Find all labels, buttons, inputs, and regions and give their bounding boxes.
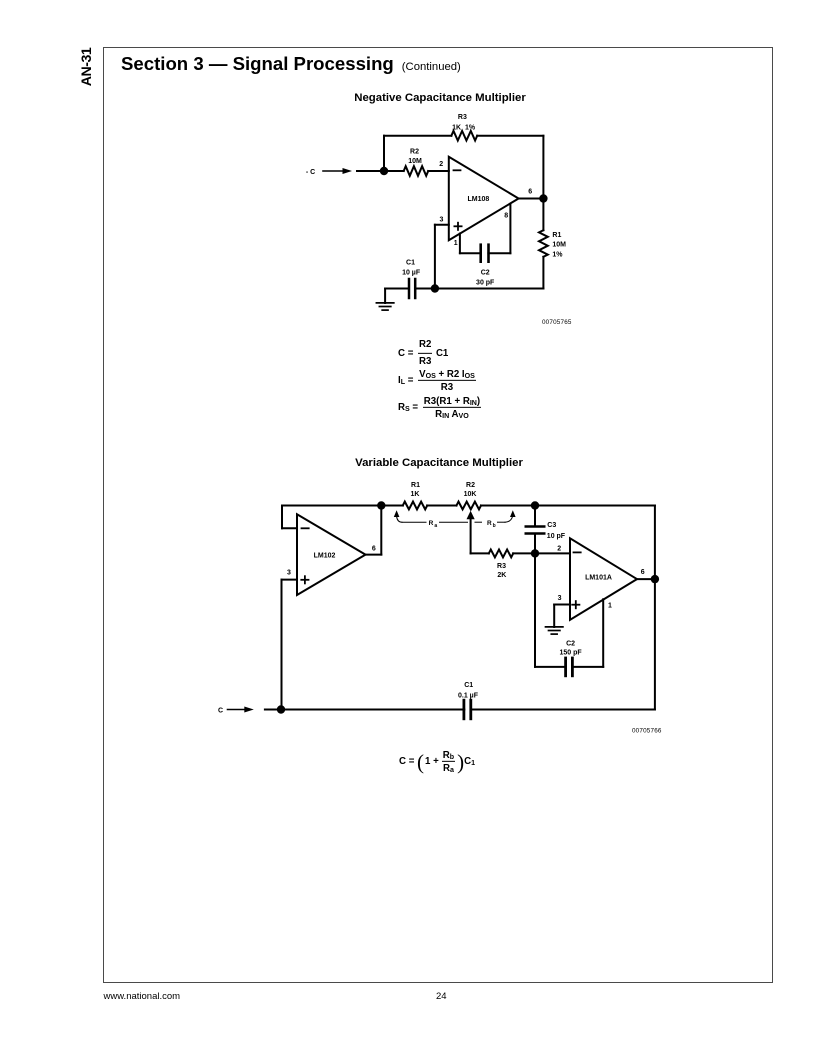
ground (circuit 1) — [376, 302, 393, 304]
svg-text:C: C — [218, 708, 223, 715]
svg-text:a: a — [434, 523, 437, 529]
op-amp plus sign (LM101A) — [572, 604, 579, 606]
wire: pin 1 down from LM101A — [602, 599, 604, 667]
capacitor C3 10pF — [534, 506, 536, 526]
svg-text:1%: 1% — [552, 252, 563, 259]
svg-text:3: 3 — [440, 217, 444, 224]
wire: C2 left to pin2-node rail — [535, 666, 566, 668]
svg-text:C3: C3 — [547, 522, 556, 529]
svg-text:6: 6 — [528, 189, 532, 196]
svg-text:00705765: 00705765 — [542, 319, 572, 326]
wire: R2 to op-amp pin 2 — [428, 170, 449, 172]
title: Variable Capacitance Multiplier — [355, 457, 523, 469]
wire: LM102 feedback stub from minus input — [282, 527, 297, 529]
wire: pin 1 to C2 — [460, 252, 481, 254]
wire: R3 to pin 2 node — [513, 552, 535, 554]
equation: IL = (VOS + R2 IOS)/R3 — [398, 368, 478, 392]
svg-text:R1: R1 — [552, 232, 561, 239]
wire: bottom rail — [435, 288, 544, 290]
svg-text:C1: C1 — [464, 682, 473, 689]
wire: left input rail up to pin 3 — [281, 580, 283, 710]
wire: input to bottom rail — [265, 709, 281, 711]
wire: LM102 feedback up to top rail — [281, 506, 283, 529]
wire: top rail feedback segment — [282, 505, 381, 507]
svg-text:3: 3 — [287, 570, 291, 577]
wire: pin 3 stub — [435, 224, 449, 226]
svg-text:30 pF: 30 pF — [476, 280, 495, 287]
wire: C1 to ground corner — [385, 288, 409, 290]
equation: C = (1 + Rb/Ra)C1 — [399, 749, 475, 773]
node: pin 2 junction dot — [531, 549, 539, 557]
op-amp U3 LM101A — [570, 538, 637, 620]
capacitor C1 10uF — [416, 288, 435, 290]
annotation Rb dimension line — [475, 521, 482, 523]
svg-text:R: R — [487, 520, 492, 527]
resistor R1 1K (circuit 2) — [403, 502, 427, 510]
wire: input arrow (circuit 1) — [323, 170, 344, 172]
ground (circuit 2) — [546, 626, 563, 628]
svg-text:R2: R2 — [410, 149, 419, 156]
svg-text:3: 3 — [558, 595, 562, 602]
svg-text:10 pF: 10 pF — [547, 533, 566, 540]
node: bottom junction dot — [431, 284, 439, 292]
svg-text:R3: R3 — [497, 563, 506, 570]
wire: pin 1 down from op-amp — [459, 234, 461, 254]
svg-text:LM101A: LM101A — [585, 574, 612, 581]
resistor R2 10M — [404, 166, 429, 176]
sidebar label AN-31 — [79, 44, 95, 90]
resistor R1 10M 1% — [542, 199, 544, 231]
svg-text:R: R — [429, 520, 434, 527]
annotation Rb curved arrow — [498, 521, 506, 523]
svg-text:10 µF: 10 µF — [402, 270, 421, 277]
wire: feedback rail down to output node — [542, 136, 544, 199]
svg-text:b: b — [493, 523, 496, 529]
svg-text:C2: C2 — [566, 640, 575, 647]
footer: page number — [436, 991, 447, 1002]
title: Negative Capacitance Multiplier — [354, 92, 526, 104]
node: C3 top junction dot — [531, 501, 539, 509]
wire: pin 3 stub (LM101A) — [554, 604, 570, 606]
node: input junction dot — [380, 167, 388, 175]
wire: bottom rail left of C1 — [281, 709, 464, 711]
svg-text:10M: 10M — [552, 242, 566, 249]
wire: pin2-node rail down — [534, 553, 536, 667]
svg-text:C1: C1 — [406, 259, 415, 266]
section heading — [121, 53, 461, 75]
svg-text:1K 1%: 1K 1% — [452, 125, 476, 132]
capacitor C2 30pF — [479, 245, 482, 262]
page frame border — [103, 47, 773, 983]
svg-text:R1: R1 — [411, 482, 420, 489]
op-amp minus sign (LM102) — [302, 527, 309, 529]
resistor R3 2K — [489, 550, 513, 558]
svg-text:C2: C2 — [481, 270, 490, 277]
wire: pin 2 node to LM101A — [535, 552, 570, 554]
wire: pin 3 down to ground — [553, 605, 555, 628]
wire: top rail to R1 — [381, 505, 403, 507]
wire: op-amp output to node — [519, 198, 544, 200]
svg-text:1: 1 — [454, 240, 458, 247]
equation: RS = R3(R1 + RIN)/(RIN AVO) — [398, 395, 483, 419]
svg-text:R2: R2 — [466, 482, 475, 489]
op-amp minus sign — [454, 169, 461, 171]
wire: wiper row to R3 — [471, 552, 489, 554]
potentiometer R2 10K — [457, 502, 482, 510]
wire: top feedback rail left segment — [384, 135, 451, 137]
wire: pin 3 stub (LM102) — [282, 579, 298, 581]
node: LM101A output junction dot — [651, 575, 659, 583]
svg-text:- C: - C — [306, 169, 315, 176]
footer: web address — [104, 991, 181, 1002]
capacitor C1 0.1uF — [462, 700, 465, 719]
wire: top rail to right rail — [535, 505, 655, 507]
wire: pin 3 down to bottom node — [434, 225, 436, 289]
svg-text:R3: R3 — [458, 114, 467, 121]
op-amp plus sign — [454, 225, 461, 227]
wire: input arrow (circuit 2) — [228, 709, 246, 711]
svg-text:6: 6 — [641, 569, 645, 576]
resistor R3 1K 1% — [451, 131, 477, 141]
node: output junction dot — [539, 194, 547, 202]
wire: right rail up — [654, 506, 656, 710]
node: bottom-left junction dot — [277, 705, 285, 713]
svg-text:6: 6 — [372, 546, 376, 553]
node: LM102 output junction dot — [377, 501, 385, 509]
op-amp U2 LM102 — [297, 514, 366, 595]
wire: R2 to C3 junction — [481, 505, 535, 507]
wire: junction up to feedback rail — [383, 136, 385, 171]
svg-text:LM102: LM102 — [314, 553, 336, 560]
wire: bottom rail right of C1 — [471, 709, 655, 711]
svg-text:0.1 µF: 0.1 µF — [458, 692, 479, 699]
wire: pin 8 up to op-amp — [509, 205, 511, 254]
wire: pin 1 to C2 — [572, 666, 603, 668]
svg-text:8: 8 — [504, 213, 508, 220]
capacitor C2 150pF — [564, 658, 567, 676]
annotation Ra dimension line right part — [440, 521, 468, 523]
wire: LM102 output up to top rail — [380, 506, 382, 555]
wire: C2 to pin 8 — [488, 252, 510, 254]
svg-text:10K: 10K — [464, 491, 477, 498]
op-amp plus sign (LM102) — [301, 579, 308, 581]
wire: LM101A output — [637, 578, 655, 580]
svg-text:2K: 2K — [497, 572, 506, 579]
svg-text:1K: 1K — [411, 491, 420, 498]
wire: input to summing junction — [357, 170, 404, 172]
op-amp minus sign (LM101A) — [574, 551, 581, 553]
svg-text:2: 2 — [557, 546, 561, 553]
wire: LM102 output — [366, 554, 382, 556]
svg-text:1: 1 — [608, 603, 612, 610]
svg-text:150 pF: 150 pF — [560, 650, 583, 657]
wire: top feedback rail right segment — [477, 135, 543, 137]
equation: C = R2/R3 C1 — [398, 339, 448, 367]
wire: R1 to R2 — [427, 505, 456, 507]
potentiometer wiper arrow — [467, 511, 475, 520]
svg-text:LM108: LM108 — [468, 196, 490, 203]
annotation Ra dimension line — [397, 517, 402, 523]
op-amp U1 LM108 — [449, 157, 519, 240]
svg-text:00705766: 00705766 — [632, 727, 662, 734]
svg-text:10M: 10M — [408, 158, 422, 165]
svg-text:2: 2 — [439, 161, 443, 168]
